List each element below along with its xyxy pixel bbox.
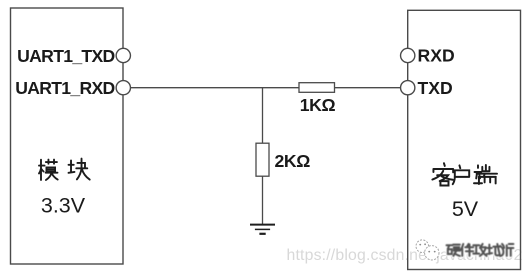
svg-text:2KΩ: 2KΩ xyxy=(275,151,311,171)
pin UART1_RXD circle xyxy=(116,81,130,95)
pin UART1_TXD circle xyxy=(116,48,130,62)
logo avatar xyxy=(416,240,439,260)
svg-text:UART1_RXD: UART1_RXD xyxy=(15,78,114,98)
svg-text:5V: 5V xyxy=(452,197,479,221)
label 端 (client) xyxy=(474,165,497,184)
svg-text:1KΩ: 1KΩ xyxy=(300,95,336,115)
resistor R1 1KΩ xyxy=(299,83,335,93)
svg-text:3.3V: 3.3V xyxy=(41,194,86,218)
svg-text:RXD: RXD xyxy=(418,46,455,66)
module box U1 模块 3.3V xyxy=(11,8,124,264)
logo text 硬件攻城狮 xyxy=(447,244,514,256)
label 块 (module) xyxy=(69,159,90,180)
label 模 (module) xyxy=(39,160,58,180)
wire junction to 2K resistor xyxy=(262,88,264,143)
label 户 (client) xyxy=(453,165,469,184)
client box U2 客户端 5V xyxy=(408,10,521,269)
pin RXD circle xyxy=(401,48,415,62)
svg-text:UART1_TXD: UART1_TXD xyxy=(17,46,114,66)
wire 2K resistor to ground xyxy=(262,176,264,224)
ground xyxy=(250,225,275,234)
pin TXD circle xyxy=(401,81,415,95)
resistor R2 2KΩ xyxy=(256,143,269,176)
label 客 (client) xyxy=(432,163,453,185)
svg-text:TXD: TXD xyxy=(418,78,453,98)
wire UART1_RXD to TXD xyxy=(130,87,400,89)
